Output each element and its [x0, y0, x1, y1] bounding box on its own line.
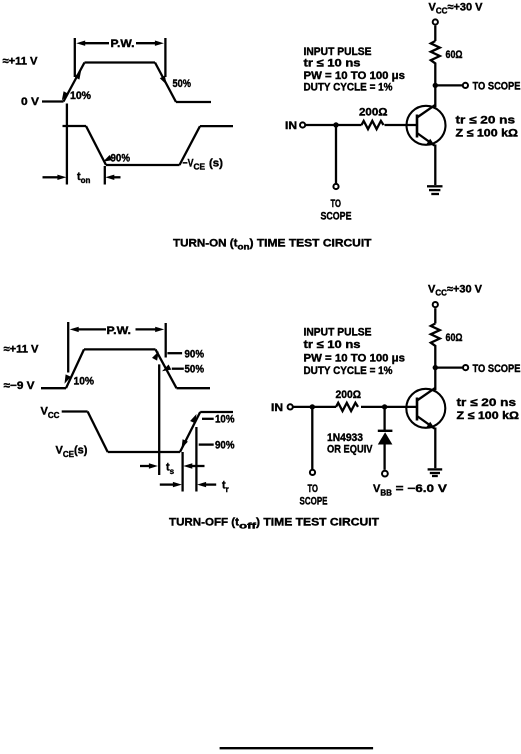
wire t_s right arrow	[191, 465, 205, 467]
svg-text:200Ω: 200Ω	[336, 389, 362, 401]
wire bottom rule	[220, 747, 374, 749]
node VCC terminal 1	[433, 19, 438, 24]
svg-text:PW = 10 TO 100 μs: PW = 10 TO 100 μs	[304, 70, 406, 82]
wire P.W. dimension left arrow 2	[78, 328, 107, 330]
wire output-waveform-1 top plateau	[200, 125, 233, 127]
wire output-waveform-1 falling edge	[86, 126, 106, 165]
wire t_on left arrow	[43, 176, 59, 178]
wire VCE falling edge	[88, 412, 108, 453]
svg-text:IN: IN	[271, 402, 283, 414]
svg-text:VBB = −6.0 V: VBB = −6.0 V	[373, 483, 448, 498]
wire input-waveform-2 baseline	[41, 387, 66, 389]
wire 90% callout line 2	[167, 352, 182, 354]
wire VCC level line	[62, 410, 88, 412]
svg-text:0 V: 0 V	[21, 96, 40, 108]
note input pulse specs 2	[304, 327, 406, 378]
svg-text:90%: 90%	[111, 153, 131, 165]
node base junction 1	[333, 122, 338, 127]
svg-text:60Ω: 60Ω	[446, 332, 463, 344]
wire input-waveform-2 right baseline	[177, 387, 211, 389]
wire emitter to ground 1	[434, 145, 436, 186]
svg-text:VCC≈+30 V: VCC≈+30 V	[429, 2, 484, 16]
resistor 60 ohm (collector load) 2	[431, 324, 440, 348]
svg-text:VCC≈+30 V: VCC≈+30 V	[428, 284, 483, 298]
wire collector node to scope terminal	[435, 84, 463, 86]
svg-text:INPUT PULSE: INPUT PULSE	[304, 327, 372, 339]
svg-text:tr ≤ 10 ns: tr ≤ 10 ns	[304, 339, 361, 351]
transistor Q2 base bar	[416, 398, 419, 421]
diode D1 1N4933 cathode bar	[378, 430, 393, 432]
node 90% marker arrow 2	[152, 351, 159, 360]
svg-text:TURN-OFF (toff) TIME TEST CIRC: TURN-OFF (toff) TIME TEST CIRCUIT	[169, 517, 379, 531]
svg-text:60Ω: 60Ω	[446, 49, 463, 61]
svg-text:P.W.: P.W.	[111, 38, 135, 50]
transistor Q2 body	[406, 389, 445, 428]
svg-text:VCE(s): VCE(s)	[56, 445, 88, 460]
svg-text:DUTY CYCLE = 1%: DUTY CYCLE = 1%	[304, 82, 393, 94]
wire 50% callout line 2	[172, 368, 184, 370]
resistor 60 ohm (collector load)	[431, 41, 440, 65]
node 90% marker arrow vce	[182, 439, 188, 448]
wire input-waveform-2 top plateau	[84, 348, 156, 350]
svg-text:50%: 50%	[185, 364, 205, 376]
svg-text:Z ≤ 100 kΩ: Z ≤ 100 kΩ	[456, 128, 519, 140]
svg-text:10%: 10%	[70, 90, 91, 102]
transistor Q2 emitter lead with arrow	[417, 416, 435, 429]
node VBB terminal	[382, 471, 388, 477]
svg-text:tr: tr	[222, 479, 229, 494]
svg-text:tr ≤ 20 ns: tr ≤ 20 ns	[456, 115, 516, 127]
wire t_r left arrow	[160, 483, 174, 485]
wire base node to scope terminal 1	[335, 125, 337, 184]
wire collector node to scope terminal 2	[435, 366, 463, 368]
svg-text:10%: 10%	[74, 375, 95, 387]
wire IN to base 2	[293, 406, 417, 408]
node 90% marker arrow	[103, 155, 112, 162]
wire t_r right arrow	[205, 483, 216, 485]
wire output-waveform-1 bottom plateau	[106, 164, 180, 166]
wire P.W. right tick 2	[165, 323, 167, 358]
node base junction 2b (diode tap)	[382, 404, 387, 409]
svg-text:IN: IN	[285, 120, 297, 132]
svg-text:SCOPE: SCOPE	[321, 211, 352, 223]
svg-text:TO SCOPE: TO SCOPE	[473, 81, 521, 93]
wire 10% vertical reference line	[66, 104, 68, 185]
wire base node to diode	[383, 407, 385, 430]
svg-text:DUTY CYCLE = 1%: DUTY CYCLE = 1%	[304, 365, 393, 377]
svg-text:90%: 90%	[185, 348, 205, 360]
svg-text:OR EQUIV: OR EQUIV	[327, 443, 373, 455]
wire 50% vertical reference line 2	[158, 364, 160, 475]
wire diode to VBB terminal	[383, 445, 385, 470]
svg-text:VCC: VCC	[41, 406, 60, 421]
node VCC terminal 2	[433, 302, 438, 307]
node base junction 2a	[310, 404, 315, 409]
wire 10% callout line vce	[202, 418, 214, 420]
wire base node to scope terminal 2	[311, 407, 313, 470]
wire t_on right tick	[104, 166, 106, 185]
transistor Q1 emitter lead with arrow	[417, 133, 435, 146]
wire input-waveform-1 falling edge	[155, 63, 176, 103]
svg-text:200Ω: 200Ω	[359, 107, 388, 119]
svg-text:tr ≤ 10 ns: tr ≤ 10 ns	[304, 58, 361, 70]
wire VCC to resistor	[434, 26, 436, 41]
node input-waveform-1 baseline 0V	[42, 100, 64, 102]
node 10% marker arrow vce	[190, 414, 196, 423]
svg-text:1N4933: 1N4933	[327, 432, 363, 444]
node IN terminal 1	[300, 122, 305, 127]
node IN terminal 2	[288, 404, 293, 409]
node TO SCOPE terminal 1 (input)	[333, 184, 338, 189]
svg-text:TO: TO	[331, 198, 342, 210]
wire input-waveform-1 right baseline	[176, 101, 211, 103]
diode D1 1N4933 triangle	[378, 432, 393, 444]
wire emitter to ground 2	[434, 428, 436, 469]
wire P.W. dimension right arrow 2	[136, 328, 158, 330]
svg-text:TURN-ON (ton) TIME TEST CIRCUI: TURN-ON (ton) TIME TEST CIRCUIT	[173, 238, 372, 252]
transistor Q1 collector lead	[417, 105, 436, 118]
svg-text:≈+11 V: ≈+11 V	[4, 344, 40, 356]
wire output-waveform-1 top tick	[63, 125, 87, 127]
node collector junction 2	[433, 365, 438, 370]
svg-text:tr ≤ 20 ns: tr ≤ 20 ns	[457, 397, 517, 409]
node 10% marker arrow 2	[65, 374, 71, 383]
node 10% marker arrow	[62, 91, 69, 100]
wire resistor to collector node 2	[434, 347, 436, 390]
svg-text:≈−9 V: ≈−9 V	[4, 380, 36, 392]
wire VCE(s) plateau	[108, 451, 180, 453]
wire output-waveform-1 rising edge	[180, 126, 201, 165]
ground symbol 1	[427, 186, 443, 194]
svg-text:≈+11 V: ≈+11 V	[3, 56, 39, 68]
svg-text:ts: ts	[166, 461, 175, 476]
wire P.W. right tick	[164, 38, 166, 77]
node 50% marker arrow 2	[162, 365, 171, 372]
svg-text:Z ≤ 100 kΩ: Z ≤ 100 kΩ	[457, 410, 520, 422]
node TO SCOPE terminal 2 (input)	[310, 470, 315, 475]
wire t_s right tick (90% time)	[181, 452, 183, 492]
wire VCE top plateau	[200, 411, 233, 413]
wire input-waveform-1 top plateau	[85, 61, 156, 63]
resistor 200 ohm (base) 2	[336, 403, 358, 411]
wire P.W. dimension right arrow	[136, 42, 157, 44]
svg-text:INPUT PULSE: INPUT PULSE	[304, 46, 372, 58]
wire VCC to resistor 2	[434, 308, 436, 323]
node TO SCOPE terminal 1 (collector)	[463, 83, 468, 88]
svg-text:TO: TO	[308, 483, 319, 495]
wire input-waveform-2 rising edge	[66, 349, 84, 388]
svg-text:90%: 90%	[215, 439, 235, 451]
wire t_on right arrow	[113, 176, 121, 178]
resistor 200 ohm (base) 1	[362, 121, 384, 129]
node collector junction 1	[433, 83, 438, 88]
wire input-waveform-1 rising edge	[64, 63, 85, 102]
note input pulse specs 1	[304, 46, 406, 94]
svg-text:ton: ton	[77, 171, 91, 185]
wire input-waveform-2 falling edge	[156, 349, 177, 388]
ground symbol 2	[428, 469, 443, 476]
svg-text:50%: 50%	[173, 78, 192, 90]
svg-text:SCOPE: SCOPE	[300, 495, 328, 507]
wire P.W. dimension left arrow	[84, 42, 109, 44]
wire VCE rising edge	[180, 412, 200, 452]
wire 90% callout line vce	[199, 443, 214, 445]
svg-text:10%: 10%	[215, 414, 235, 426]
wire t_s left arrow	[140, 465, 150, 467]
svg-text:TO SCOPE: TO SCOPE	[473, 363, 521, 375]
svg-text:P.W.: P.W.	[107, 325, 132, 337]
transistor Q2 collector lead	[417, 388, 436, 401]
transistor Q1 body	[407, 106, 446, 145]
transistor Q1 base bar	[416, 115, 419, 138]
wire IN to base	[305, 124, 417, 126]
node TO SCOPE terminal 2 (collector)	[463, 365, 468, 370]
wire t_r right tick (10% time)	[195, 427, 197, 492]
node mid-edge marker arrow	[74, 70, 81, 79]
wire P.W. left tick 2	[67, 322, 69, 373]
svg-text:PW = 10 TO 100 μs: PW = 10 TO 100 μs	[304, 353, 406, 365]
wire P.W. left tick	[74, 38, 76, 77]
node 50% marker arrow	[160, 76, 167, 85]
svg-text:−VCE(s): −VCE(s)	[183, 158, 224, 172]
wire resistor to collector node	[434, 65, 436, 108]
